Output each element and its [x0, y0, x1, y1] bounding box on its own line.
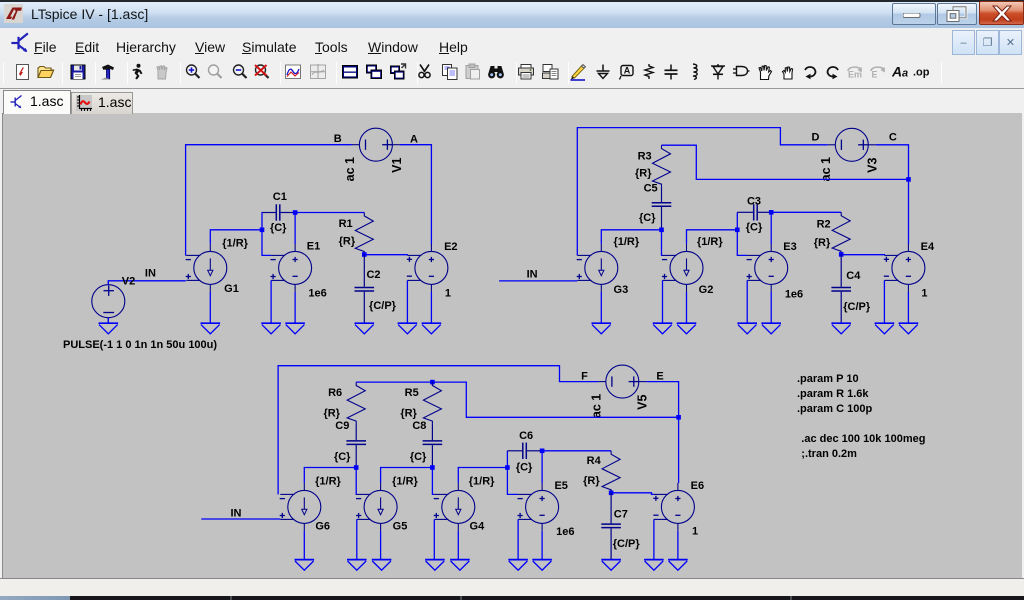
svg-text:R3: R3: [638, 150, 652, 162]
svg-text:V3: V3: [866, 158, 880, 173]
wire G1 to ground: [209, 292, 211, 323]
svg-text:{C/P}: {C/P}: [369, 300, 397, 312]
wire E1 output to ground: [294, 292, 296, 323]
svg-text:G3: G3: [614, 284, 629, 296]
wire to R4 top: [542, 450, 611, 452]
svg-text:1e6: 1e6: [785, 288, 803, 300]
junction C1 right / E1 output: [293, 210, 298, 215]
wire feedback node C to R3 top: [662, 145, 909, 179]
wire to R1 top: [295, 212, 364, 214]
behavioral voltage source E6: [653, 483, 694, 531]
svg-text:PULSE(-1 1 0 1n 1n 50u 100u): PULSE(-1 1 0 1n 1n 50u 100u): [63, 339, 217, 351]
status bar: [0, 578, 1024, 596]
junction node E: [676, 415, 681, 420]
svg-text:{C}: {C}: [639, 212, 656, 224]
svg-text:V5: V5: [636, 395, 650, 410]
svg-text:{R}: {R}: [814, 237, 831, 249]
behavioral voltage source E4: [884, 244, 925, 292]
svg-text:Em: Em: [848, 70, 862, 80]
svg-text:{1/R}: {1/R}: [222, 237, 248, 249]
wire junction down to E5 output: [541, 451, 543, 483]
ground at E5 input: [508, 560, 528, 571]
ground at E1 output: [285, 323, 305, 334]
wire junction down to G2 minus input: [662, 230, 663, 256]
ground at C4: [831, 323, 851, 334]
capacitor C4: [831, 254, 851, 323]
junction R4 bottom / C7: [609, 491, 614, 496]
wire G6 to ground: [303, 531, 305, 560]
wire V2 to ground: [107, 318, 109, 323]
behavioral voltage source E3: [747, 244, 788, 292]
wire from G1 minus up to node B rail to V1: [186, 145, 352, 256]
wire G4 output node to C6 junction: [458, 468, 507, 483]
junction C3 right / E3 output: [769, 210, 774, 215]
behavioral current source G6: [280, 483, 321, 531]
ground at E1 input: [261, 323, 281, 334]
ground at E4 output: [899, 323, 919, 334]
wire G5 output to junction: [381, 468, 433, 483]
menu bar: [0, 28, 1024, 58]
svg-text:G6: G6: [315, 520, 330, 532]
junction R2 bottom / C4: [839, 252, 844, 257]
svg-text:IN: IN: [231, 507, 242, 519]
svg-text:C8: C8: [412, 420, 426, 432]
ground at E3 output: [761, 323, 781, 334]
ground at C2: [355, 323, 375, 334]
capacitor C7: [601, 493, 621, 560]
behavioral voltage source E5: [518, 483, 559, 531]
behavioral current source G2: [662, 244, 703, 292]
svg-text:IN: IN: [527, 269, 538, 281]
svg-text:R4: R4: [587, 455, 602, 467]
wire E4 output to ground: [907, 292, 909, 323]
ground at G6: [295, 560, 315, 571]
wire G2 output node to C3 junction: [687, 230, 738, 244]
capacitor C5: [652, 187, 672, 230]
svg-text:C: C: [889, 132, 897, 144]
junction C5 bottom / G3 output: [659, 228, 664, 233]
resistor R4: [602, 451, 620, 493]
junction C8 bottom / G5 output: [430, 465, 435, 470]
ground at E4 input: [875, 323, 895, 334]
svg-text:.param C 100p: .param C 100p: [797, 403, 872, 415]
svg-text:E3: E3: [783, 241, 796, 253]
resistor R3: [653, 145, 671, 187]
ground at G4 output: [450, 560, 470, 571]
svg-text:IN: IN: [145, 268, 156, 280]
wire feedback node E to R5 top: [432, 382, 678, 417]
tab bar: [0, 88, 1024, 113]
wire R2 bottom to E4 plus input: [841, 254, 884, 257]
wire G6 output to junction: [304, 468, 356, 483]
svg-text:C3: C3: [747, 196, 761, 208]
svg-text:{R}: {R}: [323, 407, 340, 419]
svg-text:C5: C5: [644, 182, 658, 194]
ground at V2: [99, 323, 119, 334]
ground at G5 input: [347, 560, 367, 571]
wire junction down to G4 minus input: [432, 468, 434, 495]
junction R1 bottom / C2: [362, 252, 367, 257]
application icon: [4, 4, 24, 24]
behavioral current source G1: [186, 244, 227, 292]
svg-text:1e6: 1e6: [556, 526, 574, 538]
wire E3 plus input to ground: [746, 280, 748, 323]
wire node F loop from G6 minus to V5: [278, 366, 598, 495]
junction G1 output node: [260, 228, 265, 233]
ground at G4 input: [425, 560, 445, 571]
resistor R5: [423, 382, 441, 424]
svg-text:E΢: E΢: [872, 70, 878, 80]
ground at E2 input: [398, 323, 418, 334]
behavioral voltage source E1: [271, 244, 312, 292]
wire to R2 top: [771, 211, 841, 213]
junction R5 top / R6 top: [430, 380, 435, 385]
svg-text:B: B: [334, 133, 342, 145]
svg-text:.param P 10: .param P 10: [797, 373, 859, 385]
svg-text:C2: C2: [366, 269, 380, 281]
toolbar: [0, 58, 1024, 88]
capacitor C1: [262, 204, 295, 220]
svg-text:C4: C4: [846, 270, 861, 282]
svg-text:1: 1: [445, 287, 451, 299]
behavioral voltage source E2: [407, 244, 448, 292]
svg-text:{C}: {C}: [746, 222, 763, 234]
wire node E down to E6 output: [678, 417, 680, 483]
svg-text:C1: C1: [273, 191, 287, 203]
svg-text:A: A: [410, 133, 418, 145]
ground at G5 output: [372, 560, 392, 571]
svg-text:{R}: {R}: [339, 235, 356, 247]
svg-text:;.tran 0.2m: ;.tran 0.2m: [801, 448, 857, 460]
wire G3 to ground: [600, 292, 602, 323]
capacitor C8: [423, 424, 443, 467]
ground at G1: [201, 323, 221, 334]
behavioral current source G5: [356, 483, 397, 531]
wire node D loop from G3 minus to V3: [577, 128, 828, 256]
resistor R1: [355, 213, 373, 255]
svg-text:R2: R2: [817, 218, 831, 230]
wire G2 plus input to ground: [662, 280, 664, 323]
ground at C7: [601, 560, 621, 571]
svg-text:{C/P}: {C/P}: [613, 538, 641, 550]
bottom taskbar edge: [0, 596, 1024, 600]
svg-text:1: 1: [692, 526, 698, 538]
wire junction down to G5 minus input: [355, 468, 358, 495]
svg-text:a: a: [902, 68, 908, 80]
voltage source V3: [828, 128, 876, 161]
wire E6 minus input to ground: [653, 519, 655, 559]
wire E3 output to ground: [770, 292, 772, 323]
wire junction down to E3 output: [770, 212, 772, 244]
svg-text:1e6: 1e6: [308, 288, 326, 300]
svg-text:{C}: {C}: [410, 451, 427, 463]
wire G5 plus input to ground: [356, 519, 358, 559]
wire R5 top to R6 top: [356, 381, 432, 383]
junction C3 left / E3 minus: [735, 228, 740, 233]
wire junction down to E1 minus input: [262, 230, 271, 256]
wire junction up to C3: [736, 212, 738, 230]
svg-text:ac 1: ac 1: [590, 394, 604, 418]
titlebar buttons: [892, 3, 936, 25]
ground at E6 input: [644, 560, 664, 571]
wire V5 plus to node E junction: [646, 382, 678, 418]
wire junction down to E3 minus input: [737, 230, 747, 256]
svg-text:1: 1: [921, 288, 927, 300]
svg-text:ac 1: ac 1: [343, 157, 357, 181]
svg-text:D: D: [812, 132, 820, 144]
svg-text:V1: V1: [390, 158, 404, 173]
wire junction up to C1 left: [261, 213, 263, 230]
wire node C down to E4 output: [908, 179, 910, 244]
svg-text:E6: E6: [691, 480, 704, 492]
behavioral current source G3: [577, 244, 618, 292]
ground at G3: [592, 323, 612, 334]
wire G3 output to junction: [601, 230, 661, 244]
wire IN to G6 plus input: [201, 518, 280, 520]
ground at E3 input: [737, 323, 757, 334]
wire G1 output to node: [210, 230, 262, 244]
svg-text:.param R 1.6k: .param R 1.6k: [797, 388, 869, 400]
resistor R6: [347, 382, 365, 424]
svg-text:F: F: [581, 370, 588, 382]
svg-text:{R}: {R}: [583, 475, 600, 487]
svg-text:V2: V2: [122, 275, 135, 287]
junction C9 bottom / G6 output: [354, 465, 359, 470]
junction node C: [906, 177, 911, 182]
wire stub G1 minus: [185, 254, 188, 256]
svg-text:R1: R1: [339, 218, 353, 230]
ground at G2 input: [653, 323, 673, 334]
ground at E6 output: [668, 560, 688, 571]
voltage source V5: [598, 365, 646, 398]
resistor R2: [832, 212, 850, 254]
wire E2 minus input to ground: [406, 280, 408, 323]
svg-text:{1/R}: {1/R}: [315, 476, 341, 488]
wire node A from V1 plus down to E2 output: [400, 145, 432, 245]
wire E2 output to ground: [430, 292, 432, 323]
svg-text:{C}: {C}: [516, 461, 533, 473]
schematic canvas background: [2, 113, 1022, 578]
svg-text:G5: G5: [393, 520, 408, 532]
svg-text:C9: C9: [335, 420, 349, 432]
svg-text:A: A: [624, 66, 631, 76]
wire E5 output to ground: [541, 531, 543, 560]
wire junction down to E1 output: [294, 213, 296, 245]
svg-text:{C}: {C}: [270, 222, 287, 234]
wire R4 bottom to E6 plus input: [611, 493, 654, 495]
window title bar: [0, 0, 1024, 28]
mdi child schematic icon: [10, 32, 32, 54]
svg-text:R5: R5: [405, 387, 419, 399]
svg-text:E: E: [656, 370, 663, 382]
svg-text:{1/R}: {1/R}: [697, 236, 723, 248]
svg-text:G1: G1: [224, 283, 239, 295]
svg-text:E4: E4: [921, 241, 935, 253]
capacitor C6: [507, 443, 542, 459]
svg-text:E1: E1: [307, 241, 320, 253]
svg-text:{1/R}: {1/R}: [613, 236, 639, 248]
wire E5 plus input to ground: [517, 519, 519, 559]
svg-text:{R}: {R}: [635, 167, 652, 179]
svg-text:{C/P}: {C/P}: [843, 301, 871, 313]
svg-text:C7: C7: [614, 508, 628, 520]
wire IN to G3 plus input: [499, 280, 577, 282]
svg-text:{1/R}: {1/R}: [469, 476, 495, 488]
ground at E2 output: [422, 323, 442, 334]
capacitor C9: [346, 424, 366, 467]
wire R1 bottom to E2 plus input: [364, 254, 407, 257]
wire E4 minus input to ground: [883, 280, 885, 323]
svg-text:{1/R}: {1/R}: [392, 476, 418, 488]
svg-text:G4: G4: [470, 520, 486, 532]
svg-text:{C}: {C}: [334, 451, 351, 463]
wire junction up to C6: [506, 451, 508, 468]
wire V3 plus to node C junction: [876, 145, 909, 180]
svg-text:G2: G2: [699, 284, 714, 296]
junction C6 right / E5 output: [540, 449, 545, 454]
behavioral current source G4: [434, 483, 475, 531]
capacitor C2: [355, 255, 375, 324]
wire E6 output to ground: [677, 531, 679, 560]
wire G2 output to ground: [686, 292, 688, 323]
svg-text:E2: E2: [444, 241, 457, 253]
wire E1 plus input to ground: [270, 280, 272, 323]
svg-text:A: A: [892, 64, 902, 80]
capacitor C3: [737, 204, 771, 220]
voltage source V1: [352, 128, 400, 161]
ground at E5 output: [532, 560, 552, 571]
wire junction down to E5 minus input: [507, 468, 518, 495]
svg-text:.ac dec 100 10k 100meg: .ac dec 100 10k 100meg: [801, 433, 925, 445]
junction C6 left / E5 minus: [505, 465, 510, 470]
wire G4 plus input to ground: [433, 519, 435, 559]
svg-text:.op: .op: [913, 67, 930, 79]
svg-text:{R}: {R}: [400, 407, 417, 419]
svg-text:R6: R6: [328, 387, 342, 399]
ground at G2 output: [677, 323, 697, 334]
svg-text:ac 1: ac 1: [819, 157, 833, 181]
svg-text:C6: C6: [519, 430, 533, 442]
wire G5 output to ground: [380, 531, 382, 560]
wire IN from V2 to G1 plus input: [108, 281, 186, 284]
wire G4 output to ground: [457, 531, 459, 560]
svg-text:E5: E5: [554, 480, 567, 492]
voltage source V2: [92, 281, 125, 323]
